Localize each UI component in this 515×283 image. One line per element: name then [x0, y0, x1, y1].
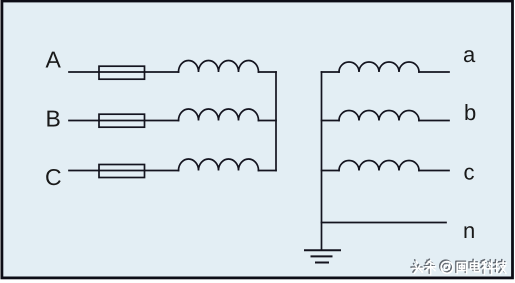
wire bus to coil a	[322, 71, 340, 73]
inductor LA primary winding	[179, 61, 259, 73]
svg-text:a: a	[463, 42, 476, 67]
secondary neutral bus	[321, 72, 323, 250]
wire c	[419, 170, 449, 172]
fuse FB	[99, 114, 145, 127]
inductor Lc secondary winding	[339, 161, 419, 171]
svg-text:n: n	[463, 218, 475, 243]
svg-text:b: b	[464, 100, 476, 125]
wire B	[69, 120, 99, 122]
inductor LC primary winding	[179, 159, 259, 171]
wire B-fuse to coil	[145, 120, 179, 122]
primary star-point bus	[275, 72, 277, 171]
svg-text:B: B	[46, 106, 61, 132]
svg-text:A: A	[46, 47, 62, 73]
svg-text:c: c	[464, 160, 475, 185]
wire C	[69, 170, 99, 172]
wire A coil to bus	[259, 71, 277, 73]
wire bus to coil b	[322, 120, 340, 122]
wire a	[419, 71, 449, 73]
svg-text:C: C	[45, 164, 62, 190]
inductor Lb secondary winding	[339, 111, 419, 121]
wire C coil to bus	[259, 170, 277, 172]
watermark toutiao logo text	[411, 259, 505, 273]
fuse FA	[99, 66, 145, 79]
ground	[305, 249, 340, 251]
wire C-fuse to coil	[145, 170, 179, 172]
inductor La secondary winding	[339, 62, 419, 72]
wire bus to coil c	[322, 170, 340, 172]
fuse FC	[99, 165, 145, 178]
wire b	[419, 120, 449, 122]
wire n neutral	[322, 222, 447, 224]
inductor LB primary winding	[179, 109, 259, 121]
wire A	[69, 71, 99, 73]
wire B coil to bus	[259, 120, 277, 122]
wire A-fuse to coil	[145, 71, 179, 73]
